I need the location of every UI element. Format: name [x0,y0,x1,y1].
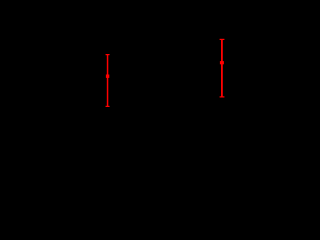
error bar 1 bottom cap [106,105,110,107]
data marker 2 [220,61,224,64]
error bar 2 bottom cap [220,96,225,98]
error bar 2 top cap [220,38,225,40]
error bar 1 vertical line [107,55,109,107]
error bar 2 vertical line [221,39,223,97]
error bar 1 top cap [106,54,110,56]
data marker 1 [106,75,109,78]
